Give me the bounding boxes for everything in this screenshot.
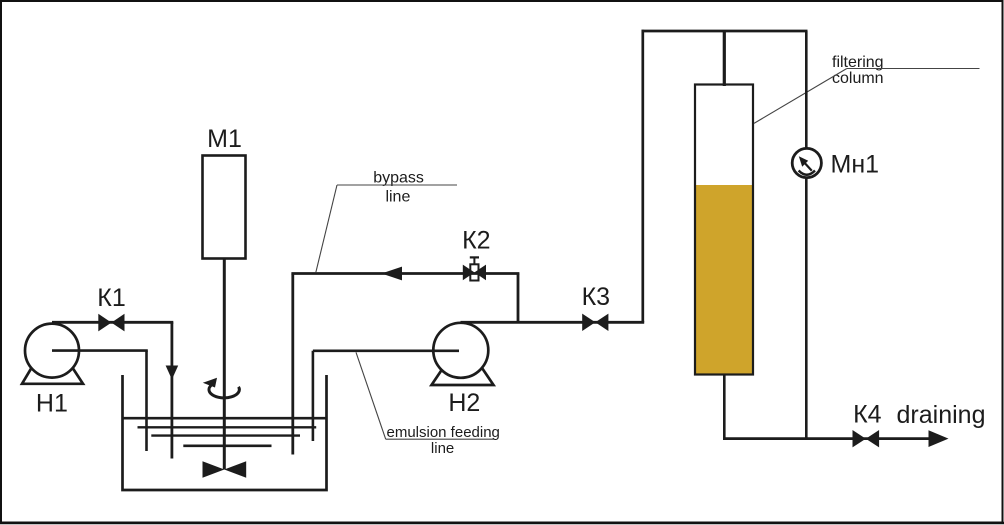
wire top header (642, 30, 808, 33)
wire column inlet (723, 31, 726, 86)
annotation filtering column (754, 54, 980, 124)
wire column outlet (723, 374, 726, 440)
tank (123, 375, 327, 490)
rotation arrow (203, 378, 240, 398)
svg-text:draining: draining (897, 401, 986, 429)
wire H2 suction horizontal (313, 349, 459, 352)
annotation emulsion feeding line (356, 352, 500, 457)
motor M1 (203, 156, 246, 259)
bypass wire right vertical (517, 274, 520, 323)
svg-text:H1: H1 (36, 390, 68, 418)
svg-text:line: line (385, 189, 410, 206)
filtering column (695, 85, 753, 375)
svg-text:M1: M1 (207, 125, 242, 153)
valve K4 (853, 430, 880, 447)
flow arrow left (382, 267, 403, 281)
valve K3 (582, 314, 608, 331)
filtering column liquid (696, 185, 752, 374)
annotation bypass line (316, 170, 457, 273)
stirrer propeller (203, 461, 247, 478)
pump H1 (22, 324, 83, 384)
svg-text:emulsion feeding: emulsion feeding (386, 424, 499, 441)
wire H2 suction vertical into tank (312, 351, 315, 441)
svg-text:К3: К3 (582, 283, 610, 311)
svg-text:bypass: bypass (373, 170, 424, 187)
pump H2 (432, 323, 494, 385)
wire riser (641, 30, 644, 323)
wire draining line (723, 437, 929, 440)
svg-text:H2: H2 (448, 389, 480, 417)
valve K2 (463, 257, 486, 280)
flow arrow down (166, 366, 179, 380)
wire H1 suction vertical into tank (145, 351, 148, 451)
svg-text:К1: К1 (97, 284, 125, 312)
tank liquid lines (123, 418, 328, 446)
draining arrow (929, 430, 949, 447)
wire H1 discharge vertical into tank (170, 322, 173, 458)
bypass wire left vertical into tank (291, 274, 294, 455)
stirrer shaft (223, 259, 226, 470)
wire H1 discharge horizontal (52, 321, 173, 324)
svg-text:К4: К4 (853, 401, 882, 429)
svg-text:line: line (431, 440, 454, 457)
valve K1 (98, 314, 124, 332)
gauge Mн1 (792, 148, 821, 177)
wire H2 discharge (461, 321, 645, 324)
svg-text:Мн1: Мн1 (831, 151, 880, 179)
bypass wire horizontal (291, 272, 519, 275)
wire H1 suction horizontal (52, 349, 148, 352)
svg-text:К2: К2 (462, 227, 490, 255)
wire gauge line (805, 31, 808, 439)
